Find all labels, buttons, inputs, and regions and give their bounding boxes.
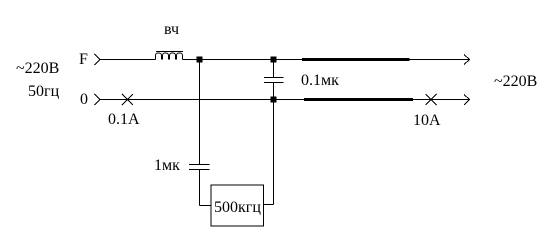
input connector chevron F line bbox=[94, 54, 100, 65]
wire node A to node B bbox=[200, 59, 274, 61]
thick wire segment top line bbox=[302, 58, 410, 61]
svg-text:0.1мк: 0.1мк bbox=[301, 72, 339, 89]
svg-text:500кгц: 500кгц bbox=[214, 199, 261, 216]
output arrow bottom bbox=[464, 95, 470, 106]
wire into generator box right bbox=[264, 204, 274, 206]
svg-text:~220В: ~220В bbox=[16, 60, 59, 77]
capacitor C2 bottom lead wire bbox=[199, 170, 201, 206]
generator box G1 (500кгц) bbox=[211, 185, 264, 226]
wire node A down to capacitor C2 bbox=[199, 60, 201, 165]
svg-text:0.1А: 0.1А bbox=[108, 111, 140, 128]
capacitor C1 top lead bbox=[273, 60, 275, 78]
wire 0 input to node C bbox=[100, 99, 274, 101]
fuse F1 0.1A cross symbol bbox=[122, 94, 133, 105]
svg-text:F: F bbox=[79, 51, 88, 68]
thick wire segment bottom line bbox=[304, 98, 413, 101]
capacitor C1 bottom lead bbox=[273, 83, 275, 100]
node A junction dot bbox=[197, 57, 203, 63]
wire F input to inductor bbox=[100, 59, 156, 61]
wire into generator box left bbox=[200, 205, 212, 207]
svg-text:0: 0 bbox=[80, 91, 88, 108]
node B junction dot bbox=[271, 57, 277, 63]
inductor L1 winding (вч choke) bbox=[156, 53, 183, 60]
inductor L1 core bar bbox=[156, 51, 183, 53]
fuse F2 10A cross symbol bbox=[426, 94, 437, 105]
wire node B to output arrow top bbox=[274, 59, 470, 61]
svg-text:10А: 10А bbox=[413, 112, 441, 129]
wire inductor to node A bbox=[182, 59, 199, 61]
capacitor C2 plates (1мк) bbox=[189, 165, 210, 170]
svg-text:1мк: 1мк bbox=[154, 157, 180, 174]
input connector chevron 0 line bbox=[94, 94, 100, 105]
svg-text:~220В: ~220В bbox=[494, 73, 537, 90]
capacitor C1 plates (0.1мк) bbox=[264, 78, 284, 83]
node C junction dot bbox=[271, 97, 277, 103]
wire node C to output arrow bottom bbox=[274, 99, 470, 101]
svg-text:50гц: 50гц bbox=[28, 83, 60, 100]
svg-text:вч: вч bbox=[164, 21, 179, 38]
wire node C down bbox=[273, 100, 275, 205]
output arrow top bbox=[464, 55, 470, 65]
